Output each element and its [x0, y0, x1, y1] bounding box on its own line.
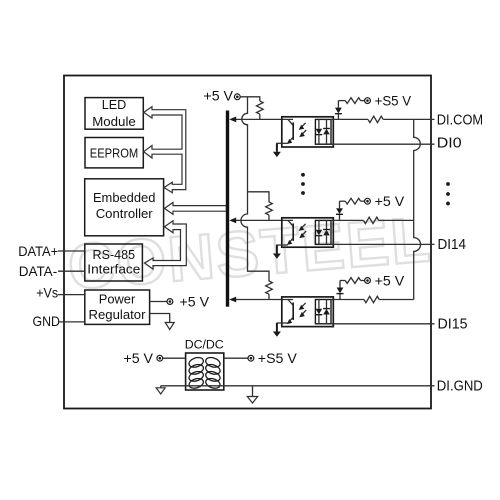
- wire LED anode line and input resistor (channel DI14): [331, 217, 414, 223]
- svg-text:EEPROM: EEPROM: [90, 146, 139, 161]
- wire LED cathode line to field terminal (channel DI15): [331, 323, 435, 325]
- wire power regulator +5V output: [149, 301, 167, 303]
- wire LED cathode line to field terminal (channel DI0): [331, 143, 435, 145]
- svg-text:DI.COM: DI.COM: [437, 113, 483, 129]
- light arrows inside optocoupler (channel DI14): [299, 224, 307, 238]
- bidirectional LED pair inside optocoupler (channel DI0): [315, 119, 331, 144]
- svg-text:DC/DC: DC/DC: [185, 338, 224, 352]
- ground (isolated DI.GND) open arrow: [247, 386, 257, 403]
- ground (non-isolated) open arrow at DC/DC: [156, 386, 165, 394]
- ground (logic) open arrow: [165, 323, 174, 330]
- svg-text:+S5 V: +S5 V: [375, 94, 412, 110]
- terminal DATA- label and wire: [19, 264, 85, 279]
- wire DI.COM bus with crossover hops: [414, 119, 421, 299]
- phototransistor inside optocoupler (channel DI0): [287, 119, 293, 144]
- svg-text:DATA-: DATA-: [19, 264, 58, 279]
- svg-text:DI15: DI15: [438, 317, 468, 333]
- wire +5V vertical rail with crossover hop: [241, 97, 269, 281]
- terminal +Vs label and wire: [36, 286, 85, 301]
- wire LED anode line and input resistor (channel DI0): [331, 116, 414, 122]
- wire rail branch to channel 2 pull-up: [248, 192, 270, 202]
- wire DC/DC secondary to +S5V terminal: [224, 357, 248, 359]
- bus arrow controller to RS-485 interface: [145, 221, 187, 269]
- resistor pull-up (+5V to phototransistor collector) (channel DI15): [266, 281, 273, 300]
- svg-text:GND: GND: [33, 314, 61, 329]
- wire collector to isolation bar with arrow (channel DI14): [229, 218, 293, 224]
- optocoupler box (channel DI14): [282, 218, 334, 247]
- block U3 EEPROM: [85, 138, 143, 168]
- wire +5V top to channel 1 pull-up: [240, 97, 260, 101]
- wire collector to isolation bar with arrow (channel DI0): [229, 117, 293, 123]
- phototransistor inside optocoupler (channel DI14): [287, 220, 293, 245]
- wire DC/DC primary return and DI.GND line: [161, 385, 435, 387]
- wire +5V to DC/DC primary: [163, 357, 186, 359]
- wire power regulator ground stub: [149, 314, 170, 323]
- resistor pull-up (+5V to phototransistor collector) (channel DI14): [266, 202, 273, 221]
- svg-text:+S5 V: +S5 V: [258, 351, 298, 367]
- svg-text:Interface: Interface: [87, 262, 140, 277]
- clamp diode to isolated supply (channel DI0): [335, 101, 342, 120]
- svg-text:+5 V: +5 V: [180, 295, 210, 311]
- svg-text:Controller: Controller: [96, 206, 154, 221]
- svg-text:DI.GND: DI.GND: [437, 378, 483, 394]
- ellipsis more terminals (outer): [446, 182, 450, 205]
- light arrows inside optocoupler (channel DI0): [299, 123, 307, 137]
- wire DI.COM stub through border: [414, 118, 435, 120]
- terminal +5 V (channel DI14): [365, 194, 405, 210]
- block U1 Embedded Controller: [85, 179, 164, 236]
- isolation bus bar: [226, 111, 229, 307]
- terminal +5 V (top, isolated-side feed): [203, 88, 240, 104]
- terminal GND label and wire: [33, 314, 85, 329]
- svg-text:LED: LED: [102, 97, 127, 112]
- optocoupler box (channel DI15): [282, 297, 334, 327]
- bidirectional LED pair inside optocoupler (channel DI15): [315, 300, 331, 324]
- resistor pull-up (+5V to phototransistor collector) (channel DI0): [257, 101, 264, 120]
- svg-text:+Vs: +Vs: [36, 286, 58, 301]
- terminal +5 V (logic supply): [167, 295, 210, 311]
- svg-text:+5 V: +5 V: [123, 351, 153, 367]
- svg-text:DI14: DI14: [438, 237, 467, 253]
- terminal label DI.COM: [437, 113, 483, 129]
- svg-text:Power: Power: [99, 292, 136, 307]
- block U2 LED Module: [85, 97, 143, 129]
- svg-text:Module: Module: [92, 114, 136, 129]
- ellipsis more channels (inner): [301, 173, 305, 195]
- terminal +5 V (channel DI15): [365, 273, 405, 289]
- svg-text:DI0: DI0: [437, 135, 462, 151]
- terminal +S5 V (channel DI0): [365, 94, 412, 110]
- block U5 Power Regulator: [85, 290, 150, 324]
- terminal label DI.GND: [437, 378, 483, 394]
- resistor to isolated supply terminal (channel DI15): [340, 278, 365, 284]
- clamp diode to isolated supply (channel DI14): [336, 201, 343, 220]
- phototransistor inside optocoupler (channel DI15): [287, 300, 293, 325]
- svg-text:+5 V: +5 V: [375, 194, 405, 210]
- svg-text:+5 V: +5 V: [375, 273, 405, 289]
- svg-text:+5 V: +5 V: [203, 88, 233, 104]
- wire LED anode line and input resistor (channel DI15): [331, 296, 414, 302]
- terminal DATA+ label and wire: [18, 244, 85, 259]
- svg-text:Embedded: Embedded: [93, 190, 156, 205]
- isolated ground arrow at phototransistor emitter (channel DI15): [273, 323, 288, 337]
- optocoupler box (channel DI0): [282, 117, 334, 147]
- wire collector to isolation bar with arrow (channel DI15): [229, 297, 293, 303]
- terminal +S5 V output: [248, 351, 297, 367]
- svg-text:Regulator: Regulator: [89, 307, 147, 322]
- wire LED cathode line to field terminal (channel DI14): [331, 243, 435, 245]
- isolated ground arrow at phototransistor emitter (channel DI0): [273, 143, 288, 157]
- terminal label DI14: [438, 237, 467, 253]
- module boundary box: [64, 76, 431, 409]
- transformer windings of DC/DC: [188, 356, 222, 390]
- clamp diode to isolated supply (channel DI15): [337, 281, 344, 300]
- bus arrow controller to LED Module / EEPROM: [144, 107, 186, 193]
- resistor to isolated supply terminal (channel DI14): [340, 198, 365, 204]
- block T1 DC/DC converter: [185, 338, 224, 390]
- block U4 RS-485 Interface: [85, 244, 143, 281]
- bus arrow isolation bar to controller: [165, 202, 227, 214]
- svg-text:DATA+: DATA+: [18, 244, 58, 259]
- svg-text:RS-485: RS-485: [93, 247, 136, 262]
- resistor to isolated supply terminal (channel DI0): [338, 98, 364, 104]
- terminal +5 V into DC/DC: [123, 351, 162, 367]
- isolated ground arrow at phototransistor emitter (channel DI14): [273, 245, 288, 259]
- bidirectional LED pair inside optocoupler (channel DI14): [315, 220, 331, 244]
- light arrows inside optocoupler (channel DI15): [299, 303, 307, 317]
- terminal label DI15: [438, 317, 468, 333]
- terminal label DI0: [437, 135, 462, 151]
